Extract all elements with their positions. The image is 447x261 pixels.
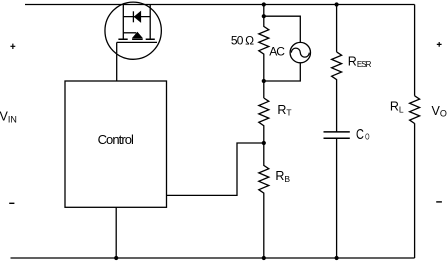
resistor RESR (332, 52, 342, 132)
plus marker VIN (10, 44, 15, 49)
svg-text:O: O (365, 132, 369, 141)
node dot top rail / 50 ohm branch (262, 2, 266, 6)
wire ESR branch from top rail (336, 5, 338, 52)
node dot top rail / RESR branch (335, 2, 339, 6)
minus marker VIN (9, 202, 14, 204)
svg-text:RESR: RESR (348, 55, 372, 69)
wire output right leg top (414, 5, 416, 96)
control block U1 (65, 81, 167, 207)
wire bottom rail VIN- to VO- (11, 257, 415, 259)
resistor RB (259, 143, 269, 258)
svg-text:RB: RB (275, 169, 290, 184)
node dot bottom rail / control (114, 256, 118, 260)
capacitor CO (324, 132, 350, 138)
svg-text:Control: Control (98, 132, 134, 147)
transistor Q1 channel bar segments (118, 38, 154, 40)
svg-text:AC: AC (269, 45, 285, 59)
transistor Q1 gate bar (117, 41, 157, 43)
svg-text:C: C (356, 127, 364, 143)
node dot 50 ohm / AC join (262, 79, 266, 83)
transistor Q1 drain lead (122, 5, 124, 40)
wire node B to RT (263, 81, 265, 98)
wire Control bottom to ground rail (115, 207, 117, 258)
AC source circle (290, 42, 310, 62)
wire top rail VIN+ to VO+ (25, 4, 415, 6)
wire Control feedback output to node FB (167, 143, 263, 195)
AC source sine wave (291, 48, 309, 57)
wire input rail to node A (263, 5, 265, 17)
svg-text:RT: RT (277, 103, 291, 118)
transistor Q1 body circle (105, 2, 161, 59)
transistor Q1 body diode (123, 11, 150, 22)
wire output right leg bottom (414, 123, 416, 258)
wire AC branch top (264, 16, 301, 42)
transistor Q1 body arrow (123, 32, 142, 38)
node dot bottom rail / RB branch (262, 256, 266, 260)
wire gate to Control box (116, 42, 118, 81)
wire AC branch bottom (264, 63, 301, 81)
node dot FB junction RT/RB (262, 141, 266, 145)
svg-text:VO: VO (432, 104, 447, 119)
resistor RL (410, 96, 420, 124)
resistor RT (259, 98, 269, 143)
node dot bottom rail / CO branch (335, 256, 339, 260)
svg-text:VIN: VIN (0, 110, 17, 125)
plus marker VO (437, 42, 442, 47)
svg-text:RL: RL (390, 100, 404, 115)
svg-text:50 Ω: 50 Ω (231, 34, 254, 48)
minus marker VO (436, 201, 442, 203)
wire CO to ground rail (336, 138, 338, 258)
node dot 50 ohm / AC split (262, 14, 266, 18)
resistor 50 ohm (259, 16, 269, 81)
transistor Q1 source lead (149, 5, 151, 40)
